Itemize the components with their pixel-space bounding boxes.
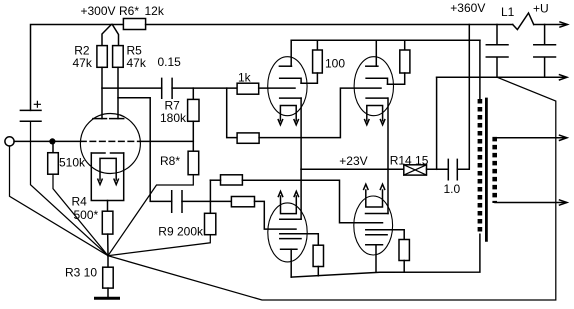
screen grid V3 <box>280 234 319 245</box>
wire C2 to grid stoppers <box>182 200 231 202</box>
wire C1.0 to +360V <box>457 25 469 170</box>
wire split to R2 R5 <box>102 25 119 46</box>
screen grid V2 <box>280 78 301 83</box>
heater arrow V5 left <box>365 120 369 125</box>
cathode box V1 <box>91 153 123 201</box>
svg-text:+23V: +23V <box>339 154 367 168</box>
wire R7-R8 <box>192 121 194 151</box>
resistor 1k <box>237 83 259 94</box>
svg-text:100: 100 <box>325 57 345 71</box>
wire R9 to node <box>108 235 210 256</box>
svg-text:47k: 47k <box>127 56 147 70</box>
wire V6 screen resistor bottom <box>403 261 405 273</box>
wire 1k to V2 grid <box>259 87 295 89</box>
wire 100-1 to V2 screen <box>301 73 317 83</box>
arrow output bottom <box>560 200 568 205</box>
wire +360V rail <box>146 24 513 26</box>
tube V1 envelope <box>80 114 140 174</box>
wire stopper to V6 grid <box>242 180 382 223</box>
svg-text:47k: 47k <box>73 56 93 70</box>
heater arrow V3 left <box>278 191 282 196</box>
wire anode V1b lead <box>117 67 119 118</box>
capacitor 0.15 <box>162 78 172 98</box>
heater arrow V3 right <box>294 191 298 196</box>
resistor R6 <box>123 19 145 30</box>
transformer secondary winding <box>492 137 497 203</box>
wire stopper to V3 grid <box>255 201 297 229</box>
heater arrow V1 right <box>114 179 118 184</box>
wire feedback bottom <box>108 77 556 300</box>
svg-text:1k: 1k <box>238 71 252 85</box>
capacitor 1.0 <box>448 159 457 179</box>
ground <box>96 297 119 300</box>
wire R3 to ground <box>107 288 109 297</box>
heater arrow V2 right <box>294 120 298 125</box>
svg-text:+U: +U <box>533 2 549 16</box>
wire to +U <box>534 24 567 26</box>
capacitor electrolytic plates <box>20 110 41 121</box>
wire V3 screen resistor bottom <box>317 267 319 276</box>
screen grid V6 <box>366 230 404 240</box>
capacitor filter 2 <box>534 25 556 78</box>
cathode V5 <box>366 97 387 99</box>
wire V1a anode to C 0.15 <box>102 87 162 89</box>
resistor R8* <box>188 151 199 175</box>
wire return drop <box>436 77 438 169</box>
resistor R9 <box>205 213 216 234</box>
tube V6 envelope <box>354 196 393 255</box>
capacitor coupling C2 <box>172 191 182 213</box>
svg-text:1.0: 1.0 <box>444 182 461 196</box>
anode bar V5 <box>366 65 378 67</box>
wire left rail to node <box>31 121 109 256</box>
svg-text:12k: 12k <box>145 4 165 18</box>
wire R7 top lead <box>192 88 194 99</box>
wire dot to 510k <box>52 141 54 152</box>
wire R14 to C1.0 <box>427 168 449 170</box>
resistor 100 (upper left screen) <box>313 50 323 73</box>
wire V5 cathode bus <box>387 98 389 213</box>
svg-text:180k: 180k <box>160 111 187 125</box>
svg-text:+300V: +300V <box>81 4 116 18</box>
svg-text:0.15: 0.15 <box>158 55 182 69</box>
resistor V3 screen <box>313 245 323 266</box>
wire 100-1 top lead <box>316 40 318 50</box>
arrow output top <box>560 135 568 140</box>
wire R4 to node <box>107 234 109 256</box>
svg-text:500*: 500* <box>74 208 99 222</box>
resistor R4 <box>102 211 113 234</box>
resistor R3 <box>103 267 114 288</box>
anode bar V2 <box>279 65 291 67</box>
heater V3 <box>281 196 297 214</box>
wire input ground lead <box>10 146 109 256</box>
heater arrow V1 left <box>98 179 102 184</box>
resistor R2 <box>97 46 107 68</box>
tube V2 envelope <box>268 57 307 116</box>
heater arrow V2 left <box>278 120 282 125</box>
wire 100-2 to V5 screen <box>388 73 405 84</box>
arrow +U terminal <box>560 22 568 27</box>
anode bar V6 <box>366 244 383 246</box>
anode bar V1a <box>93 118 107 120</box>
resistor grid stopper upper right <box>237 133 259 143</box>
anode bar V1b <box>110 118 124 120</box>
resistor R14 <box>404 165 427 175</box>
wire anode V1a lead <box>101 67 103 118</box>
input terminal <box>5 137 14 146</box>
wire 510k to node <box>53 174 108 256</box>
wire grid stopper to V5 grid <box>259 88 381 138</box>
wire stopper lead left <box>210 179 220 181</box>
svg-text:R4: R4 <box>72 195 88 209</box>
wire V1b anode to C2 <box>118 98 172 202</box>
wire primary top lead <box>479 40 481 99</box>
grid V1 dashed <box>81 140 141 142</box>
svg-text:510k: 510k <box>59 155 86 169</box>
wire +23V line <box>301 168 404 170</box>
wire V6 anode lead <box>375 245 377 272</box>
wire secondary top lead <box>495 137 566 139</box>
capacitor filter 1 <box>486 25 508 78</box>
wire C0.15 to 1k <box>172 87 237 89</box>
wire cathode to R4 <box>107 201 109 212</box>
wire V3 anode lead <box>290 249 292 277</box>
wire 100-2 top lead <box>404 40 406 50</box>
svg-text:+360V: +360V <box>450 1 485 15</box>
wire junction vertical <box>209 180 211 213</box>
heater arrow V6 right <box>380 184 384 189</box>
resistor grid stopper V3 <box>231 197 254 207</box>
heater V6 <box>366 190 383 207</box>
arrow return terminal <box>560 75 568 80</box>
svg-text:R6*: R6* <box>119 4 139 18</box>
wire anode bottom bus <box>291 234 480 277</box>
resistor V6 screen <box>399 240 409 261</box>
svg-text:L1: L1 <box>501 5 515 19</box>
transformer primary winding <box>478 99 483 234</box>
wire +300V rail (top-left) <box>31 25 124 111</box>
anode bar V3 <box>281 248 297 250</box>
resistor R7 <box>188 99 199 121</box>
wire V5 anode lead <box>375 40 377 66</box>
plus sign <box>34 101 40 107</box>
wire V1 grid to R7/R8 <box>140 140 193 142</box>
resistor R5 <box>113 46 124 68</box>
svg-text:R8*: R8* <box>160 154 180 168</box>
wire R8 to node <box>108 175 193 256</box>
heater arrow V6 left <box>364 184 368 189</box>
tube V5 envelope <box>354 57 393 116</box>
wire supply return <box>437 76 566 78</box>
suppressor V3 <box>280 238 301 240</box>
resistor R14 X mark <box>404 165 427 175</box>
resistor 100 (upper right screen) <box>400 50 410 73</box>
cathode V2 <box>280 97 301 99</box>
junction dot <box>49 138 55 144</box>
wire node to R3 <box>107 256 109 268</box>
screen grid V5 <box>366 78 387 84</box>
heater V2 <box>280 106 296 121</box>
wire V2 cathode bus <box>300 98 302 219</box>
svg-text:R14 15: R14 15 <box>390 153 429 167</box>
heater V1 <box>100 158 116 180</box>
cathode bars V1 <box>91 152 123 154</box>
wire input to V1 grid <box>14 140 81 142</box>
inductor L1 <box>513 13 534 30</box>
wire anode supply line <box>291 39 480 41</box>
transformer core <box>485 98 488 242</box>
svg-text:R9 200k: R9 200k <box>158 225 204 239</box>
cathode V6 <box>366 213 389 215</box>
cathode V3 <box>280 218 301 220</box>
suppressor V6 <box>366 234 387 236</box>
svg-text:R3 10: R3 10 <box>65 266 97 280</box>
wire secondary bottom lead <box>495 202 566 204</box>
resistor 510k <box>48 153 59 175</box>
tube V3 envelope <box>268 203 307 262</box>
wire V2 anode lead <box>290 40 292 66</box>
heater arrow V5 right <box>380 120 384 125</box>
heater V5 <box>367 106 383 121</box>
resistor grid stopper V6 <box>221 175 243 185</box>
wire drop to lower grid resistor <box>227 88 237 138</box>
